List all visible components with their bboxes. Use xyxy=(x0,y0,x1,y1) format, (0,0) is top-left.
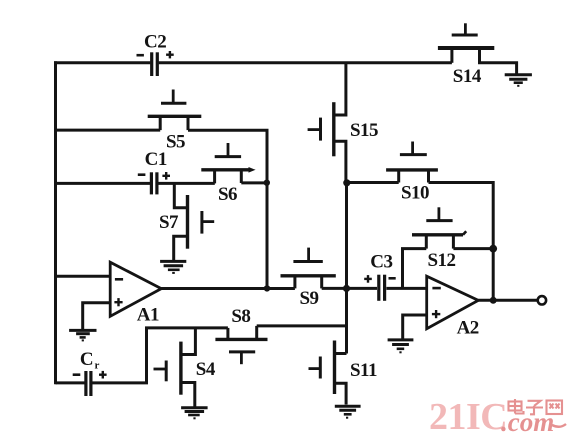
svg-text:A1: A1 xyxy=(137,305,159,326)
wire S12 left lead down xyxy=(403,249,427,289)
wire S10 left xyxy=(347,181,399,184)
svg-text:S8: S8 xyxy=(231,306,250,327)
char dian xyxy=(509,402,522,411)
svg-text:A2: A2 xyxy=(457,318,479,339)
svg-text:C1: C1 xyxy=(145,149,167,170)
op-amp A1 xyxy=(110,262,161,325)
svg-text:S10: S10 xyxy=(401,182,429,203)
wire S8 right xyxy=(257,324,347,327)
capacitor C1 xyxy=(138,149,170,194)
transistor S6 xyxy=(201,143,255,205)
transistor S15 xyxy=(308,63,378,183)
wire S5 left xyxy=(56,129,161,132)
svg-text:S9: S9 xyxy=(299,288,318,309)
ground at A2 xyxy=(388,340,414,352)
node junction S15/S10 xyxy=(343,179,350,186)
svg-text:C2: C2 xyxy=(144,32,166,53)
ground at S11 xyxy=(335,406,361,417)
svg-text:C3: C3 xyxy=(370,252,392,273)
wire A1 minus input xyxy=(56,275,111,278)
node junction output xyxy=(490,297,497,304)
wire S9 right xyxy=(322,287,347,290)
svg-text:S11: S11 xyxy=(350,360,377,381)
transistor S14 xyxy=(438,23,494,87)
wire C3 left xyxy=(347,287,378,290)
transistor S11 xyxy=(309,341,378,405)
wire S14 right to ground xyxy=(478,63,517,74)
svg-text:S6: S6 xyxy=(218,184,237,205)
wire C3 right xyxy=(386,287,426,290)
transistor S8 xyxy=(215,306,267,364)
wire A2 output xyxy=(478,299,537,302)
svg-text:S7: S7 xyxy=(159,212,179,233)
svg-text:C: C xyxy=(80,349,93,370)
capacitor C4 xyxy=(73,349,107,396)
transistor S12 xyxy=(412,207,466,271)
svg-text:S12: S12 xyxy=(427,250,455,271)
node junction S9/C3 xyxy=(343,285,350,292)
svg-text:S14: S14 xyxy=(453,66,482,87)
watermark 21IC.com logo xyxy=(429,396,566,438)
capacitor C2 xyxy=(137,32,174,77)
wire S12 right xyxy=(453,247,493,250)
wire C1 right to S6 xyxy=(158,182,215,185)
wire A1 plus input xyxy=(83,303,111,330)
wire C4 left xyxy=(56,381,85,384)
wire S5 right down to A1 output xyxy=(188,130,267,288)
ground at S7 xyxy=(160,261,186,273)
op-amp A2 xyxy=(427,276,479,338)
output terminal xyxy=(538,296,546,304)
node junction S6/rail xyxy=(264,180,270,186)
wire C4 right up to S8 xyxy=(93,328,228,383)
char wang xyxy=(547,401,563,415)
svg-text:S15: S15 xyxy=(350,120,378,141)
svg-text:r: r xyxy=(95,360,100,372)
transistor S9 xyxy=(281,248,336,309)
wire left rail xyxy=(54,61,57,384)
wire A2 plus input xyxy=(403,315,427,339)
char zi xyxy=(528,401,541,406)
node junction S12/rail xyxy=(489,245,497,253)
wire C1 left xyxy=(56,182,151,185)
ground at A1 xyxy=(69,330,96,340)
svg-text:S5: S5 xyxy=(166,132,185,153)
transistor S4 xyxy=(154,328,216,407)
ground at S4 xyxy=(181,408,208,419)
capacitor C3 xyxy=(364,252,396,301)
svg-text:21IC: 21IC xyxy=(429,396,507,438)
transistor S5 xyxy=(148,90,202,153)
wire top rail right segment xyxy=(159,61,452,64)
transistor S7 xyxy=(159,183,214,260)
svg-text:S4: S4 xyxy=(196,359,216,380)
wire S6 right xyxy=(241,181,267,184)
ground at S14 xyxy=(505,75,532,86)
wire mid rail down xyxy=(345,183,348,354)
svg-text:.com: .com xyxy=(501,407,554,437)
wire top rail left segment xyxy=(54,61,150,64)
node junction A1out/rail xyxy=(264,285,270,291)
wire A1 output xyxy=(161,287,295,290)
transistor S10 xyxy=(386,142,438,204)
wire S10 right down xyxy=(429,183,494,301)
